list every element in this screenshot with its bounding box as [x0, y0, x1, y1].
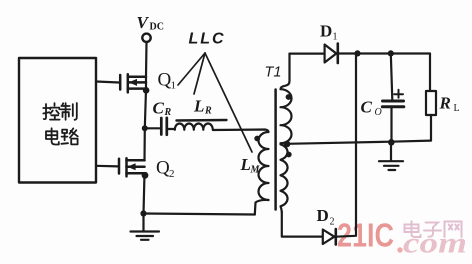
wire Vdc down to Q1 drain [145, 42, 148, 76]
watermark 电子网 [405, 221, 462, 237]
svg-text:2: 2 [169, 168, 175, 180]
transistor Q1 [119, 75, 122, 90]
transistor Q2 [118, 159, 121, 174]
wire Co branch [391, 53, 393, 99]
wire box to Q1 gate [96, 82, 119, 83]
capacitor CR [160, 118, 163, 135]
transformer core [274, 90, 277, 210]
node D (ground rail junction) [140, 210, 146, 216]
控 [43, 104, 49, 119]
wire box to Q2 gate [96, 165, 118, 168]
secondary top polarity dot [286, 94, 292, 100]
wire center tap to output ground rail [287, 141, 431, 144]
svg-text:C: C [153, 99, 165, 118]
路 [61, 130, 68, 144]
capacitor Co [383, 100, 404, 103]
secondary mid polarity dot [286, 152, 292, 158]
svg-text:1: 1 [333, 32, 338, 43]
Vdc terminal [142, 34, 150, 42]
wire node B to capacitor CR [145, 127, 160, 129]
svg-text:C: C [361, 98, 373, 117]
label 电路 (circuit) [46, 128, 78, 144]
label 控制 (control) [43, 103, 77, 120]
电 [46, 128, 59, 144]
inductor LR [175, 124, 213, 130]
wire Q1 source down to node A [145, 77, 146, 129]
LLC annotation lines [178, 53, 252, 152]
node F (Co top junction) [388, 50, 394, 56]
node B (half-bridge midpoint, CR tap) [142, 125, 148, 131]
wire primary bottom to rail [255, 200, 269, 215]
primary polarity dot [254, 136, 260, 142]
wire secondary top to D1 [290, 52, 325, 54]
diode D2 [323, 230, 335, 245]
node G (output ground junction) [388, 139, 395, 146]
svg-text:M: M [250, 165, 261, 176]
svg-text:L: L [193, 97, 204, 116]
svg-text:D: D [317, 206, 329, 225]
svg-text:Q: Q [156, 158, 170, 179]
ground (right, output) [390, 142, 392, 160]
svg-text:V: V [137, 13, 150, 32]
svg-text:O: O [375, 107, 382, 118]
node C (Q2 source junction) [142, 172, 149, 179]
ground (left, below Q2) [142, 214, 144, 232]
transformer secondary lower winding [281, 144, 288, 212]
svg-text:21IC: 21IC [337, 217, 394, 254]
svg-text:DC: DC [150, 22, 164, 33]
svg-text:R: R [204, 106, 212, 117]
svg-text:LLC: LLC [189, 31, 226, 48]
Co plus sign [394, 90, 403, 98]
wire D1 to top rail [338, 52, 430, 54]
svg-text:R: R [164, 107, 172, 118]
电 [405, 221, 421, 237]
diode D1 [325, 45, 337, 63]
子 [424, 223, 441, 237]
wire secondary bottom to D2 [282, 212, 323, 237]
transformer secondary upper winding [281, 54, 292, 144]
svg-text:L: L [240, 155, 251, 174]
svg-text:T1: T1 [265, 65, 282, 81]
wire RL branch [429, 54, 431, 92]
wire D2 to top rail [336, 53, 356, 236]
wire LR to transformer primary [213, 130, 269, 133]
node A (Q1 source junction) [143, 87, 150, 94]
resistor RL [426, 91, 436, 115]
center tap node [284, 141, 291, 148]
wire node B down to Q2 drain [143, 128, 146, 160]
control box [19, 58, 96, 183]
制 [61, 103, 70, 120]
wire CR to LR [167, 128, 175, 130]
svg-text:Q: Q [158, 70, 172, 91]
svg-text:1: 1 [171, 80, 177, 92]
wire Q2 source down [144, 173, 145, 213]
MOSFET body arrows [127, 79, 137, 170]
inductor LR bar [177, 119, 227, 122]
svg-text:L: L [454, 103, 460, 114]
bottom rail wire [144, 214, 255, 215]
node E (D1/D2 cathode junction) [354, 50, 360, 56]
svg-text:2: 2 [330, 217, 335, 228]
svg-text:D: D [320, 22, 332, 41]
svg-text:R: R [439, 94, 451, 113]
watermark .com [403, 227, 467, 260]
transformer T1 primary winding [259, 132, 269, 200]
网 [445, 222, 462, 238]
watermark 21IC [337, 217, 403, 254]
